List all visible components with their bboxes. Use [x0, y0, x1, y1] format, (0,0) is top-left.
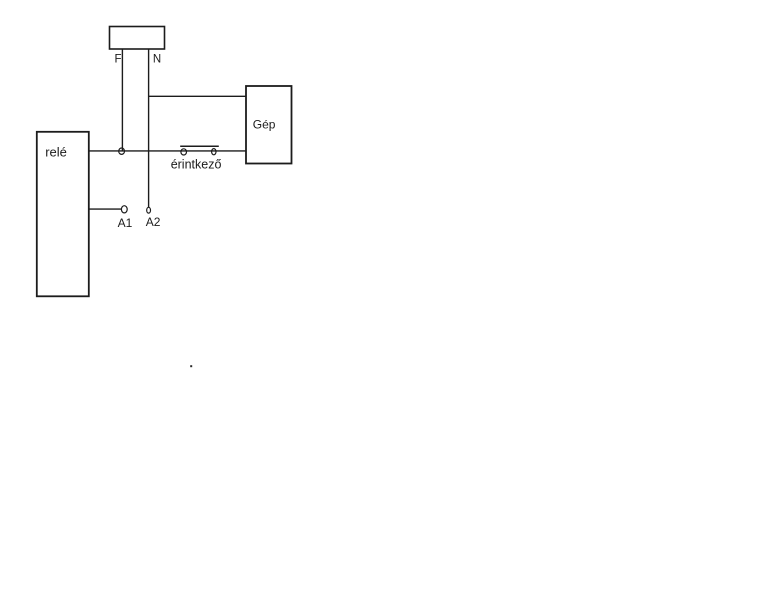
- terminal A1: [121, 206, 127, 213]
- contact switch left terminal: [181, 149, 187, 155]
- svg-text:A2: A2: [146, 215, 161, 229]
- svg-text:relé: relé: [45, 145, 67, 160]
- contact switch blade: [180, 145, 219, 147]
- terminal A2: [147, 207, 151, 213]
- relay box: [37, 132, 89, 296]
- wire relay to machine: [89, 150, 246, 152]
- svg-text:N: N: [153, 53, 161, 65]
- stray dot: [190, 365, 192, 367]
- wire F (phase down to relay wire): [121, 49, 123, 151]
- svg-text:Gép: Gép: [253, 118, 276, 132]
- wire relay to A1: [89, 208, 122, 210]
- svg-text:érintkező: érintkező: [171, 157, 222, 171]
- power source box: [110, 27, 165, 50]
- machine box Gép: [246, 86, 292, 164]
- svg-text:F: F: [115, 53, 122, 65]
- contact switch right terminal: [212, 149, 216, 155]
- wire N (neutral down to A2): [148, 49, 150, 207]
- terminal node on F junction: [119, 148, 125, 154]
- wire N to machine: [149, 95, 246, 97]
- svg-text:A1: A1: [118, 216, 133, 230]
